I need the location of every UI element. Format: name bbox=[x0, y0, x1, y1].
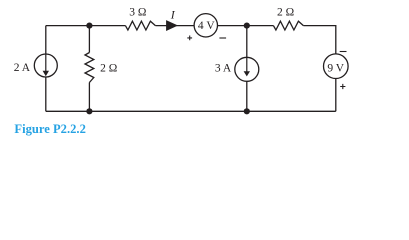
svg-text:Figure P2.2.2: Figure P2.2.2 bbox=[14, 122, 85, 136]
svg-text:2 A: 2 A bbox=[14, 62, 31, 74]
svg-text:9 V: 9 V bbox=[327, 62, 344, 74]
svg-text:2 Ω: 2 Ω bbox=[100, 63, 117, 75]
svg-text:2 Ω: 2 Ω bbox=[277, 7, 294, 19]
svg-text:I: I bbox=[170, 7, 176, 21]
svg-text:3 A: 3 A bbox=[215, 63, 232, 75]
svg-text:4 V: 4 V bbox=[198, 20, 215, 32]
svg-text:3 Ω: 3 Ω bbox=[129, 7, 146, 19]
